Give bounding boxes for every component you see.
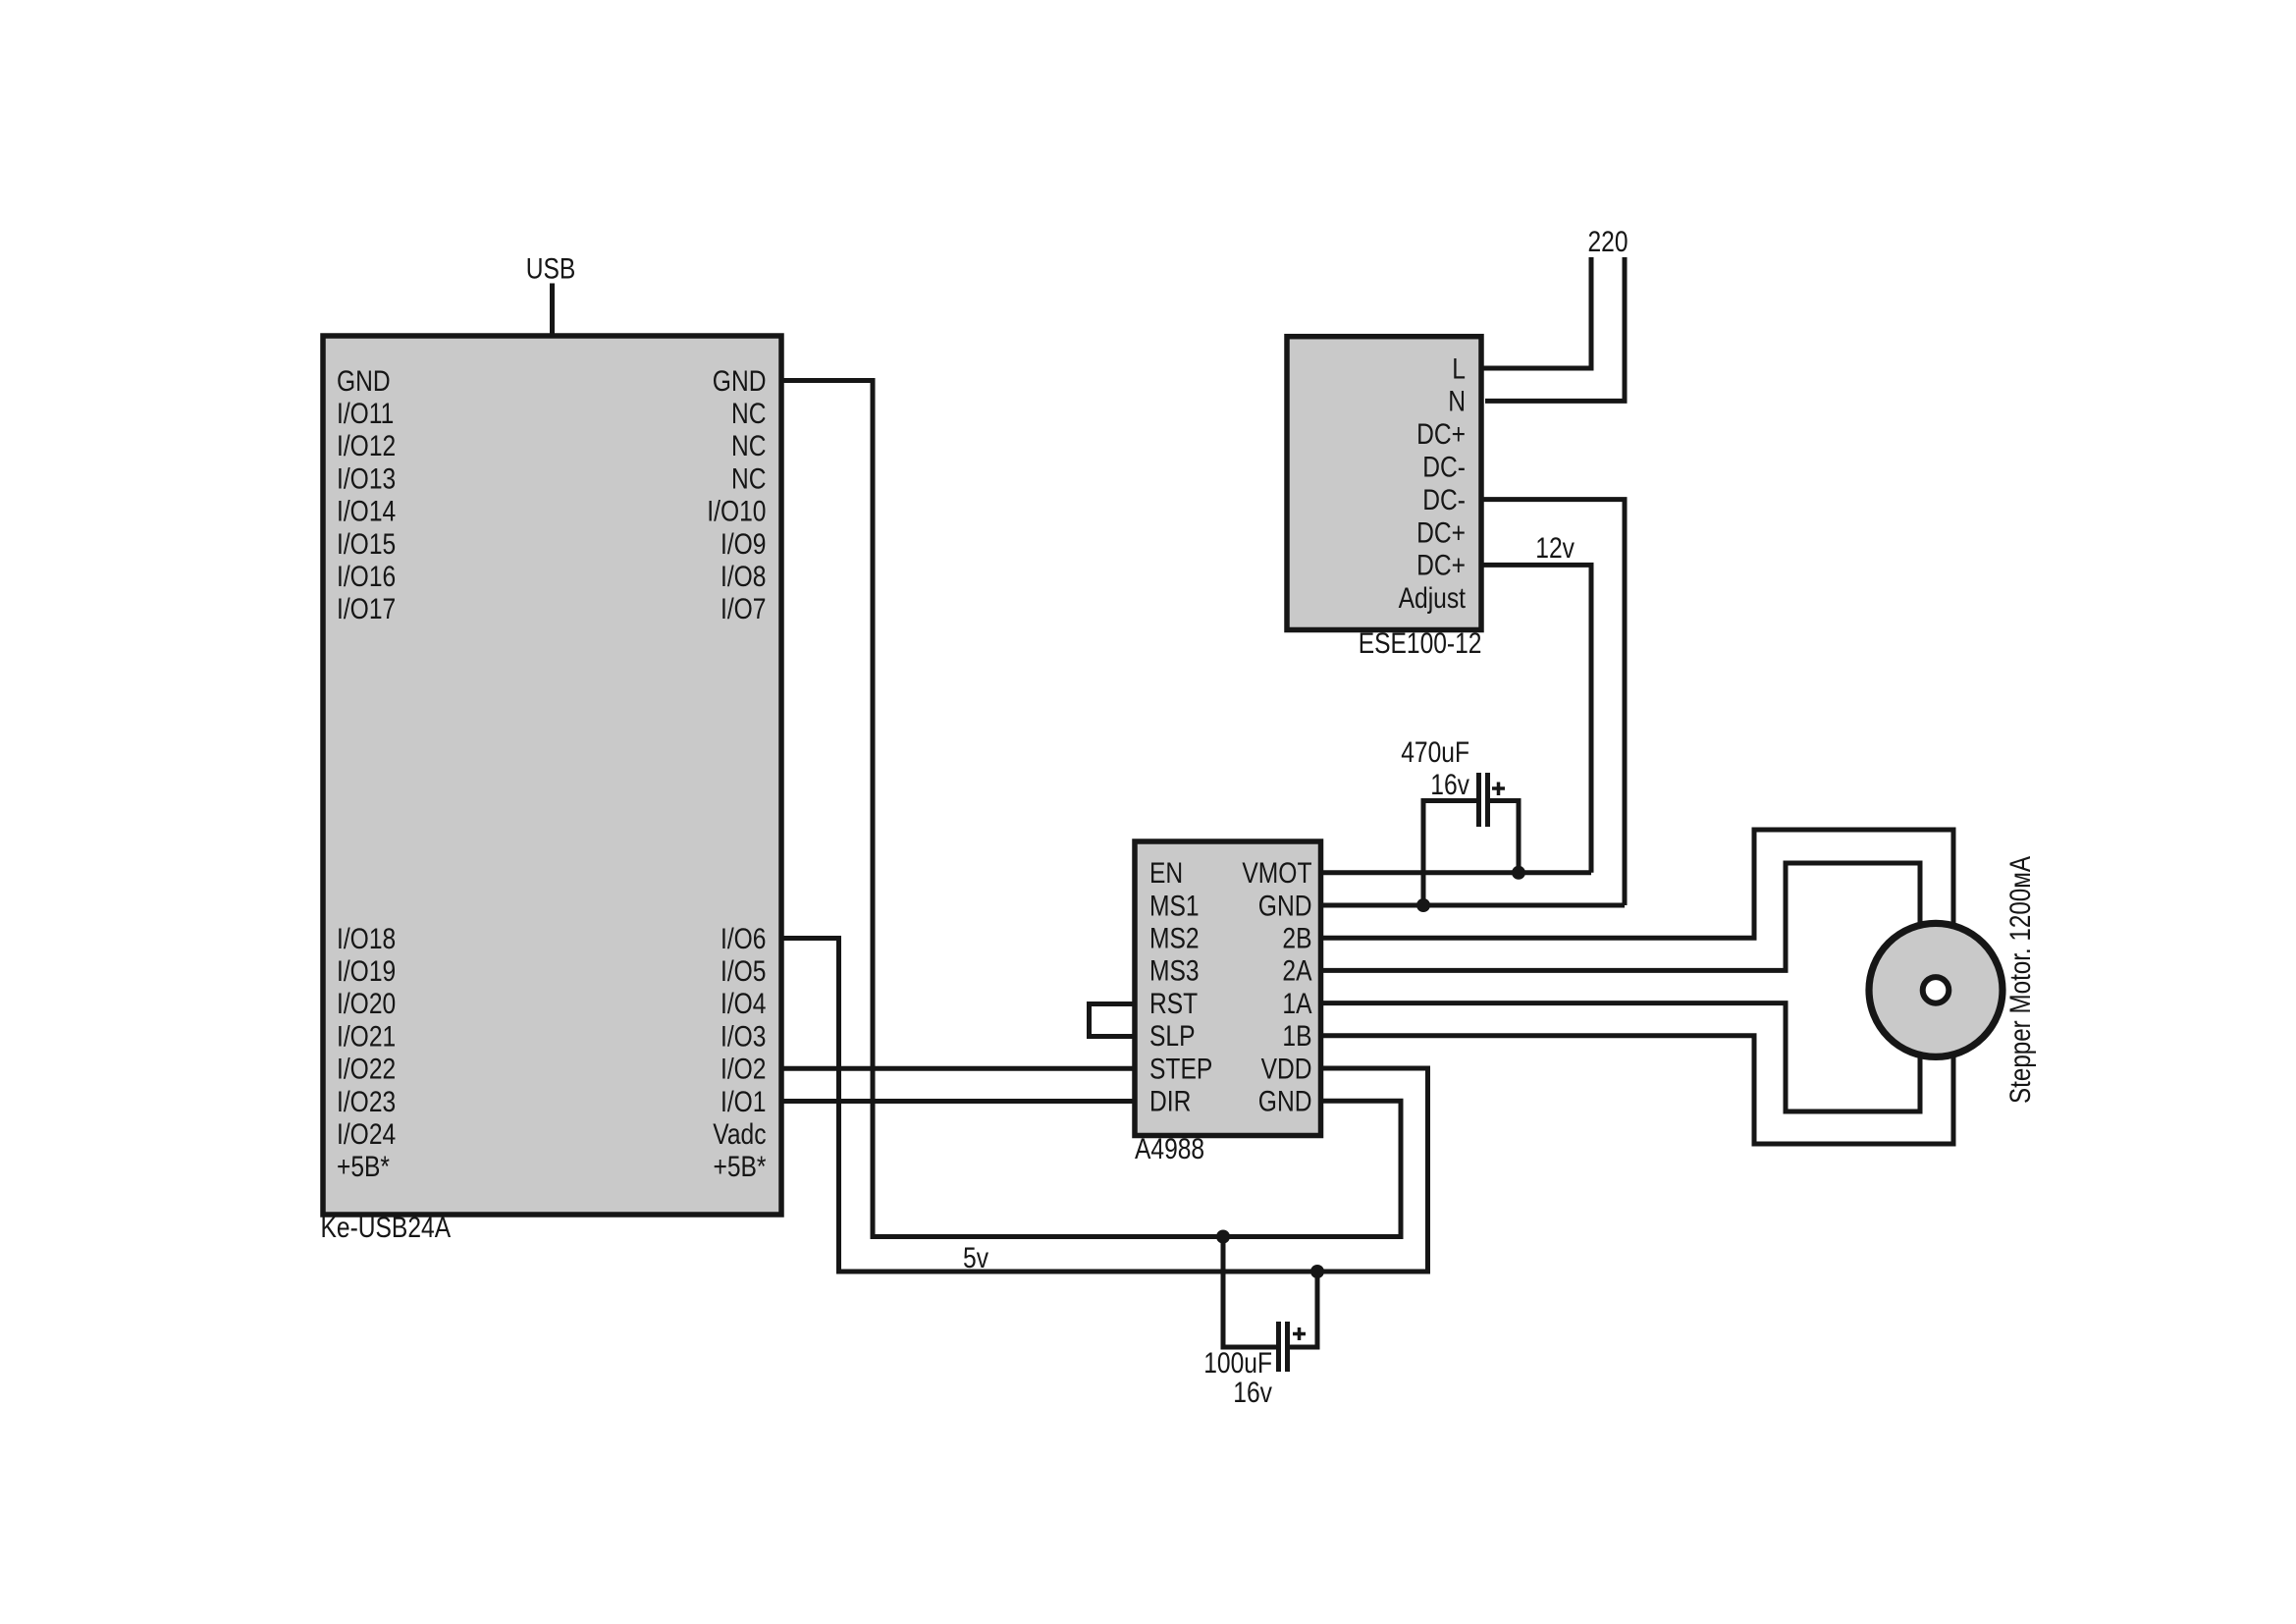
svg-text:VDD: VDD <box>1261 1053 1312 1085</box>
svg-text:GND: GND <box>713 365 767 398</box>
svg-text:I/O9: I/O9 <box>721 528 767 561</box>
svg-text:I/O12: I/O12 <box>337 430 396 462</box>
wire coil 2A-1A inner loop <box>1321 863 1921 1111</box>
svg-text:I/O15: I/O15 <box>337 528 396 561</box>
capacitor C1 plates <box>1479 773 1488 827</box>
svg-text:EN: EN <box>1149 857 1183 890</box>
wire 5v net I/O6 to VDD <box>781 939 1428 1272</box>
wire coil 2B-1B outer loop <box>1321 830 1954 1144</box>
svg-text:VMOT: VMOT <box>1242 857 1311 890</box>
svg-text:16v: 16v <box>1233 1377 1272 1409</box>
svg-text:+5B*: +5B* <box>714 1151 767 1183</box>
svg-text:I/O1: I/O1 <box>721 1086 767 1118</box>
wire 12v DC+ to VMOT <box>1481 565 1591 872</box>
svg-text:NC: NC <box>731 398 767 430</box>
IC U2 A4988 body <box>1135 841 1321 1136</box>
svg-text:DC+: DC+ <box>1416 418 1466 451</box>
svg-text:Vadc: Vadc <box>713 1118 766 1151</box>
svg-text:I/O21: I/O21 <box>337 1020 396 1053</box>
svg-text:SLP: SLP <box>1149 1020 1196 1053</box>
svg-text:2A: 2A <box>1282 955 1311 988</box>
svg-text:I/O6: I/O6 <box>721 923 767 955</box>
svg-text:DIR: DIR <box>1149 1086 1191 1118</box>
svg-text:ESE100-12: ESE100-12 <box>1359 627 1482 660</box>
junction C1+ on VMOT wire <box>1512 866 1525 880</box>
svg-text:N: N <box>1448 386 1466 418</box>
svg-text:GND: GND <box>1258 890 1312 922</box>
svg-text:I/O4: I/O4 <box>721 988 767 1020</box>
svg-text:I/O18: I/O18 <box>337 923 396 955</box>
svg-text:100uF: 100uF <box>1203 1347 1272 1380</box>
svg-text:I/O11: I/O11 <box>337 398 394 430</box>
capacitor C2 100uF leads <box>1223 1237 1317 1348</box>
svg-text:Ke-USB24A: Ke-USB24A <box>321 1212 452 1244</box>
svg-text:DC-: DC- <box>1422 452 1466 484</box>
svg-text:DC-: DC- <box>1422 484 1466 516</box>
capacitor C2 polarity + <box>1293 1327 1306 1340</box>
svg-text:220: 220 <box>1588 226 1629 258</box>
svg-text:16v: 16v <box>1430 769 1469 801</box>
svg-text:I/O2: I/O2 <box>721 1054 767 1086</box>
wire U2 GND pin2 <box>1321 903 1626 908</box>
svg-text:Adjust: Adjust <box>1399 582 1467 615</box>
svg-text:I/O20: I/O20 <box>337 988 396 1020</box>
svg-text:1A: 1A <box>1282 988 1311 1020</box>
capacitor C2 plates <box>1279 1322 1288 1372</box>
svg-text:I/O22: I/O22 <box>337 1054 396 1086</box>
svg-text:MS2: MS2 <box>1149 923 1200 955</box>
svg-text:I/O3: I/O3 <box>721 1020 767 1053</box>
svg-text:I/O16: I/O16 <box>337 561 396 593</box>
wire VMOT <box>1321 870 1592 875</box>
svg-text:470uF: 470uF <box>1401 736 1469 769</box>
wire I/O2 to STEP <box>781 1066 1135 1071</box>
svg-text:I/O8: I/O8 <box>721 561 767 593</box>
svg-text:5v: 5v <box>963 1242 988 1274</box>
wire L to 220 <box>1481 257 1591 368</box>
svg-text:NC: NC <box>731 430 767 462</box>
svg-text:DC+: DC+ <box>1416 516 1466 549</box>
svg-text:L: L <box>1452 352 1466 385</box>
junction C2+ on 5v wire <box>1310 1265 1324 1278</box>
wire DC- down <box>1481 500 1625 905</box>
svg-text:I/O10: I/O10 <box>707 496 766 528</box>
capacitor C1 470uF leads <box>1423 801 1519 906</box>
power supply PS1 ESE100-12 body <box>1287 337 1481 630</box>
svg-text:DC+: DC+ <box>1416 550 1466 582</box>
motor M1 shaft <box>1923 977 1949 1003</box>
capacitor C1 polarity + <box>1492 783 1505 796</box>
motor M1 stepper body <box>1869 923 2002 1056</box>
wire USB to U1 top <box>550 284 555 337</box>
svg-text:+5B*: +5B* <box>337 1151 390 1183</box>
svg-text:GND: GND <box>1258 1086 1312 1118</box>
svg-text:I/O17: I/O17 <box>337 593 396 625</box>
svg-text:I/O19: I/O19 <box>337 955 396 988</box>
junction C2- on GND wire <box>1216 1230 1230 1244</box>
svg-text:I/O24: I/O24 <box>337 1118 396 1151</box>
wire jumper RST-SLP <box>1090 1004 1136 1037</box>
wire N to 220 <box>1485 257 1625 401</box>
svg-text:I/O23: I/O23 <box>337 1086 396 1118</box>
junction C1- on GND wire <box>1416 898 1430 912</box>
svg-text:GND: GND <box>337 365 391 398</box>
svg-text:USB: USB <box>526 253 576 286</box>
svg-text:RST: RST <box>1149 988 1198 1020</box>
svg-text:MS1: MS1 <box>1149 890 1200 922</box>
svg-text:2B: 2B <box>1282 923 1311 955</box>
svg-text:I/O14: I/O14 <box>337 496 396 528</box>
svg-text:Stepper Motor. 1200мА: Stepper Motor. 1200мА <box>2004 856 2037 1104</box>
svg-text:MS3: MS3 <box>1149 955 1200 988</box>
svg-text:A4988: A4988 <box>1135 1133 1204 1165</box>
svg-text:12v: 12v <box>1535 532 1575 565</box>
wire GND net U1 to U2 <box>781 381 1401 1237</box>
svg-text:I/O13: I/O13 <box>337 462 396 495</box>
svg-text:1B: 1B <box>1282 1020 1311 1053</box>
svg-text:STEP: STEP <box>1149 1053 1212 1085</box>
wire I/O1 to DIR <box>781 1099 1135 1104</box>
svg-text:NC: NC <box>731 462 767 495</box>
svg-text:I/O5: I/O5 <box>721 955 767 988</box>
IC U1 Ke-USB24A body <box>323 336 781 1215</box>
svg-text:I/O7: I/O7 <box>721 593 767 625</box>
